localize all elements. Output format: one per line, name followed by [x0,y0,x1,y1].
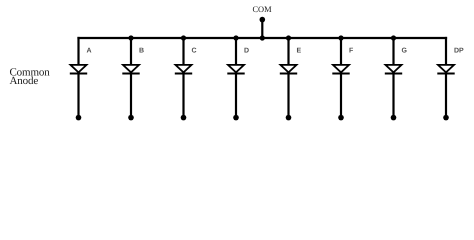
label: segment DP [454,48,464,55]
wire: cathode lead of LED A [77,74,79,117]
caption: Common Anode [10,66,51,87]
svg-text:DP: DP [454,48,464,55]
LED DP (diode, anode up) [437,65,454,74]
terminal dot: cathode pin E [286,115,292,121]
LED D (diode, anode up) [227,65,244,74]
svg-text:Anode: Anode [10,75,39,87]
wire: cathode lead of LED DP [445,74,447,117]
terminal dot: cathode pin G [391,115,397,121]
wire: anode lead of LED E [287,37,289,65]
label: segment G [402,48,408,55]
svg-text:F: F [349,48,354,55]
wire: anode lead of LED A [77,37,79,65]
terminal dot: cathode pin B [128,115,134,121]
wire: anode lead of LED DP [445,37,447,65]
svg-text:B: B [139,48,144,55]
junction dot: bus to LED E [286,35,291,40]
wire: common anode bus [77,37,447,39]
LED F (diode, anode up) [332,65,349,74]
label: segment F [349,48,354,55]
LED E (diode, anode up) [280,65,297,74]
junction dot: bus to LED G [391,35,396,40]
wire: cathode lead of LED D [235,74,237,117]
junction dot: bus to LED D [233,35,238,40]
svg-text:COM: COM [252,5,272,14]
LED A (diode, anode up) [70,65,87,74]
net label COM [252,5,272,14]
wire: cathode lead of LED C [182,74,184,117]
LED G (diode, anode up) [385,65,402,74]
label: segment A [87,48,92,55]
junction dot: bus to LED C [181,35,186,40]
label: segment E [297,48,302,55]
terminal dot: cathode pin F [338,115,344,121]
wire: cathode lead of LED G [392,74,394,117]
wire: cathode lead of LED E [287,74,289,117]
label: segment D [244,48,249,55]
wire: cathode lead of LED F [340,74,342,117]
wire: cathode lead of LED B [130,74,132,117]
svg-text:A: A [87,48,92,55]
LED C (diode, anode up) [175,65,192,74]
label: segment B [139,48,144,55]
terminal dot: COM pin [260,17,266,23]
svg-text:C: C [192,48,197,55]
label: segment C [192,48,197,55]
terminal dot: cathode pin A [76,115,82,121]
wire: anode lead of LED B [130,37,132,65]
svg-text:D: D [244,48,249,55]
terminal dot: cathode pin D [233,115,239,121]
wire: anode lead of LED F [340,37,342,65]
terminal dot: cathode pin DP [443,115,449,121]
junction dot: bus to LED F [338,35,343,40]
LED B (diode, anode up) [122,65,139,74]
wire: anode lead of LED D [235,37,237,65]
terminal dot: cathode pin C [181,115,187,121]
svg-text:G: G [402,48,408,55]
svg-text:E: E [297,48,302,55]
wire: anode lead of LED G [392,37,394,65]
wire: COM stub [261,20,263,38]
wire: anode lead of LED C [182,37,184,65]
junction dot: COM to anode bus [260,35,265,40]
junction dot: bus to LED B [128,35,133,40]
